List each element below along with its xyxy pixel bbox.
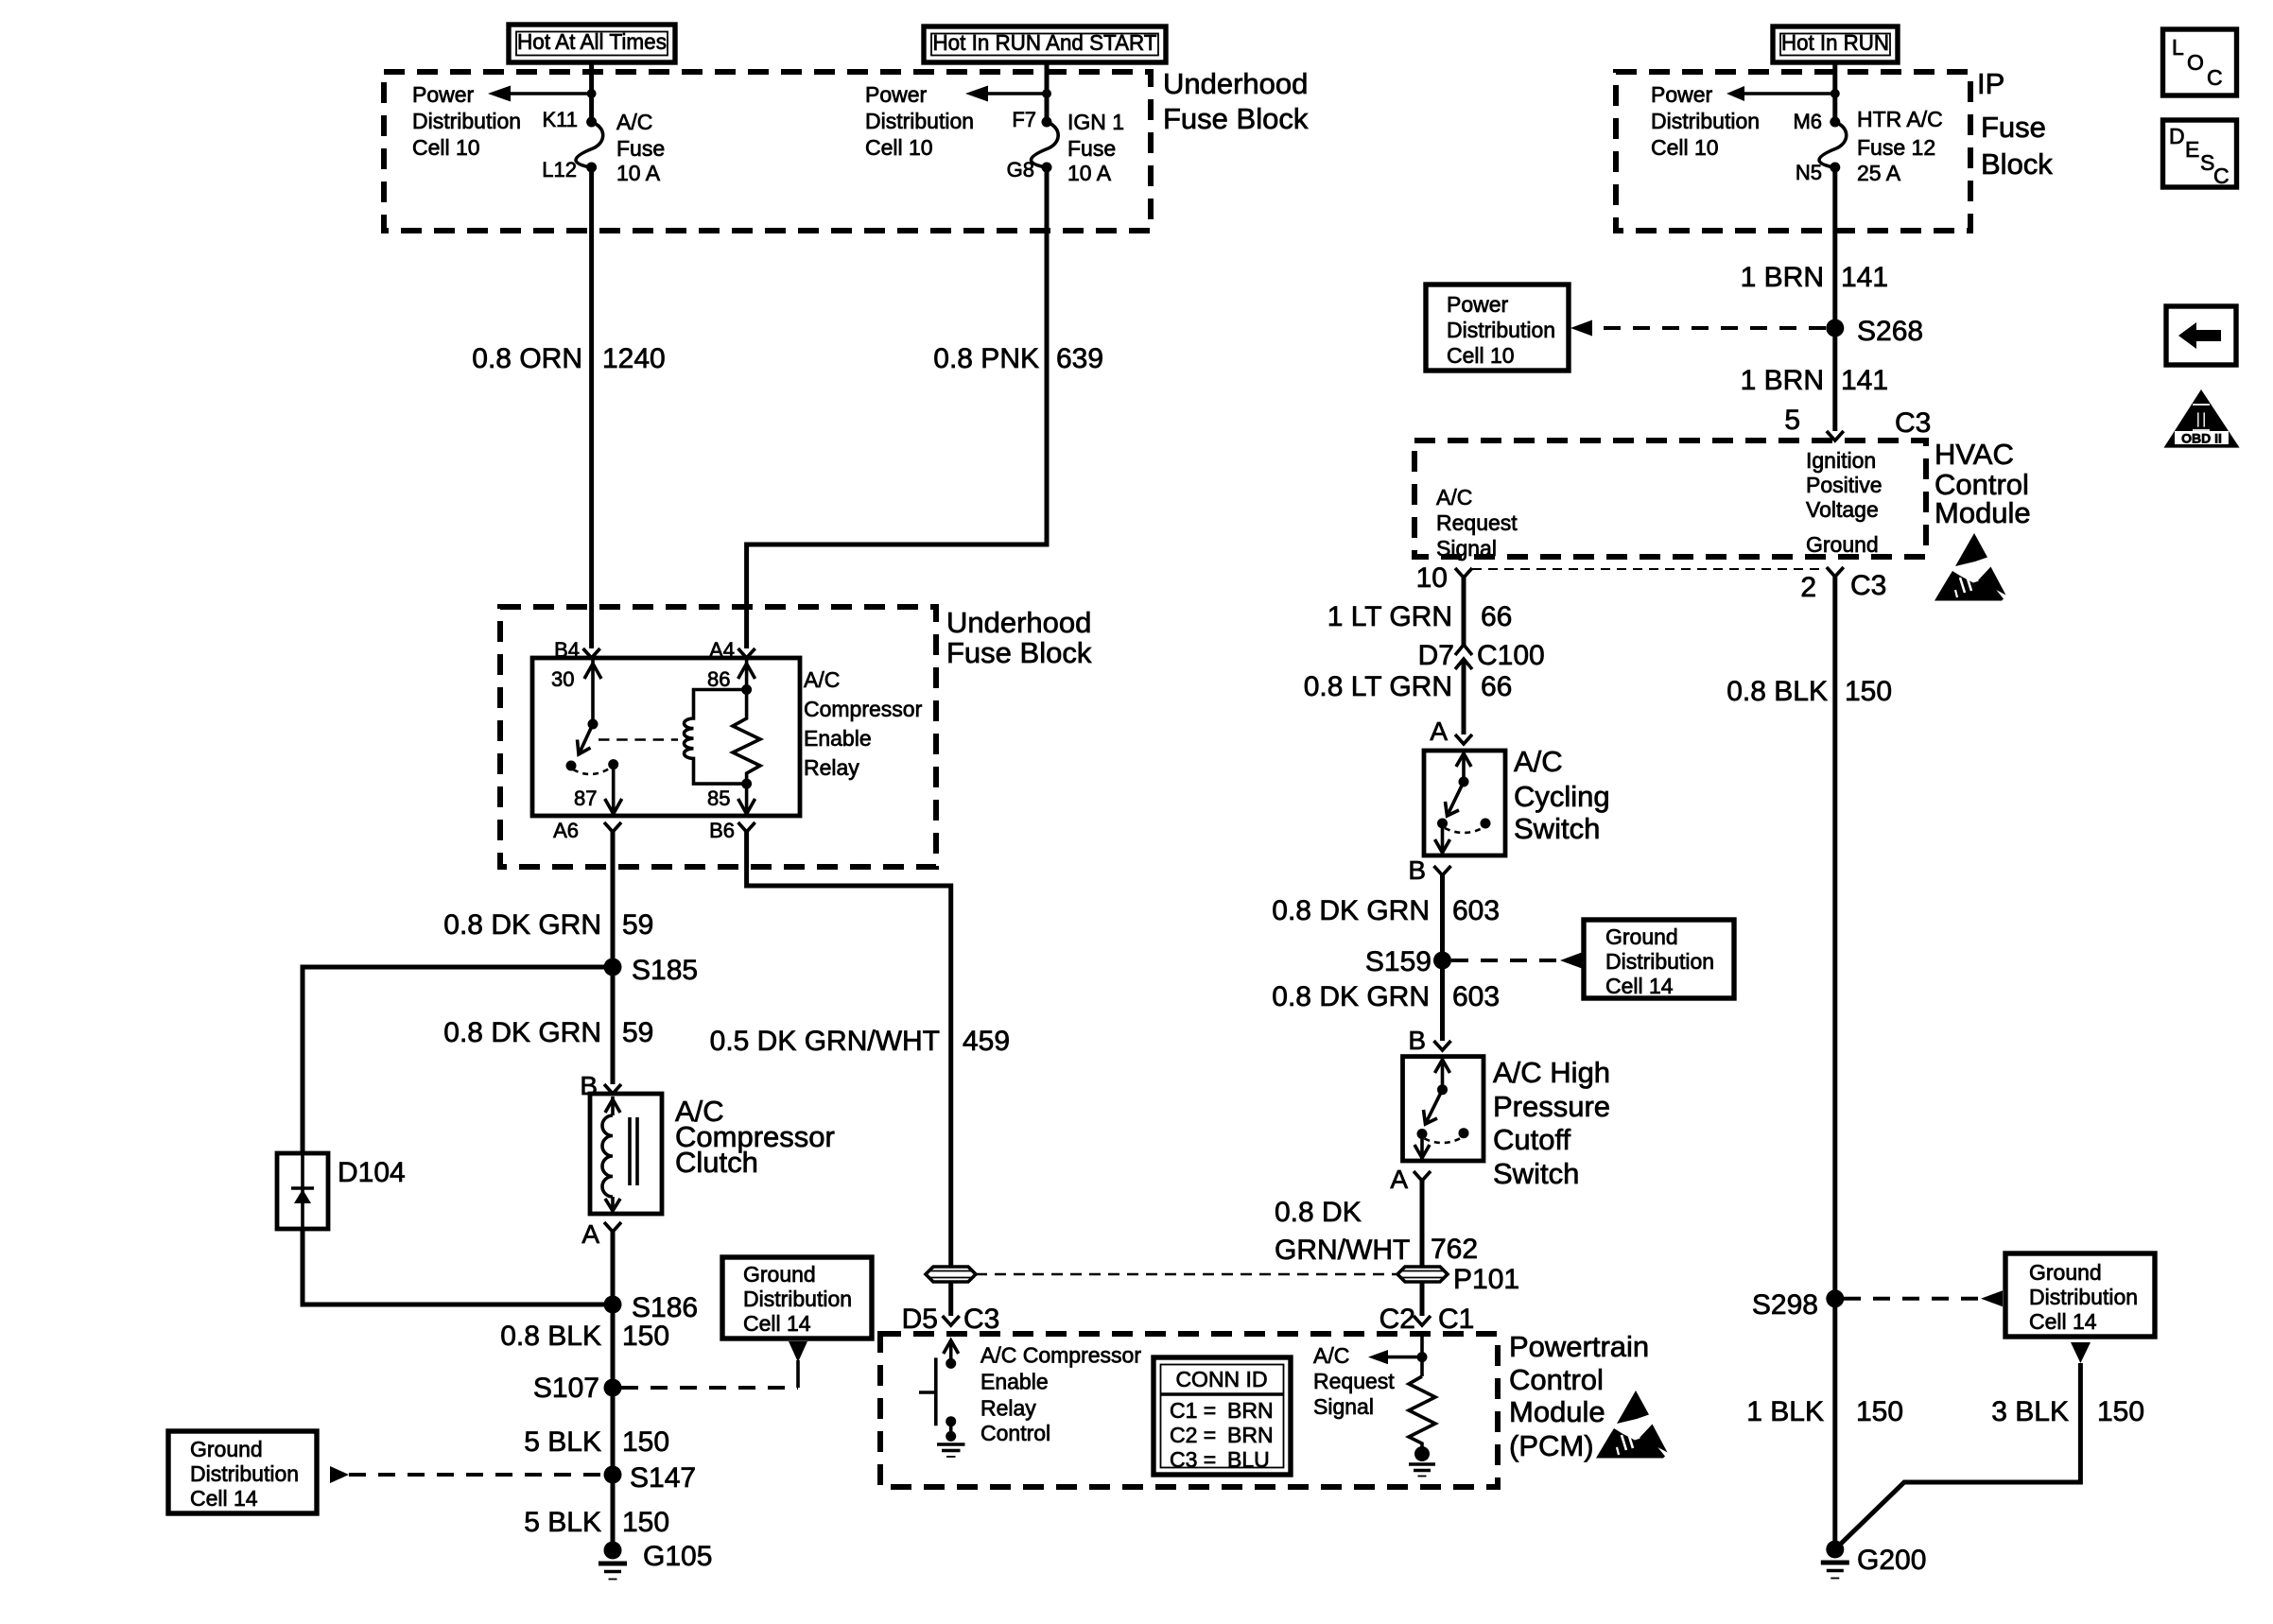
svg-text:A: A bbox=[1430, 717, 1448, 746]
svg-text:Hot At All Times: Hot At All Times bbox=[517, 29, 667, 54]
clutch plates (parallel lines) bbox=[630, 1117, 637, 1185]
svg-text:Distribution: Distribution bbox=[865, 109, 974, 133]
wire 0.8 ORN 1240 from A/C fuse to relay B4 bbox=[589, 167, 594, 648]
wire 0.8 DK GRN 59 relay A6 to S185 bbox=[611, 832, 616, 967]
svg-text:Switch: Switch bbox=[1493, 1157, 1579, 1190]
box Ground Distribution Cell 14 (right) bbox=[2005, 1253, 2155, 1337]
svg-text:Signal: Signal bbox=[1436, 536, 1497, 561]
svg-text:Ground: Ground bbox=[1605, 924, 1678, 949]
svg-text:Cell 10: Cell 10 bbox=[1651, 135, 1719, 160]
svg-text:Cell 14: Cell 14 bbox=[1605, 974, 1674, 998]
arrow to Ground Distribution (left triangle, S159) bbox=[1560, 953, 1582, 969]
svg-text:Request: Request bbox=[1436, 510, 1518, 535]
label A/C Compressor Enable Relay bbox=[804, 667, 923, 780]
node S107 bbox=[533, 1373, 622, 1404]
svg-text:603: 603 bbox=[1452, 981, 1500, 1012]
svg-text:S159: S159 bbox=[1365, 946, 1431, 977]
dashed reference wire S107 to Ground Distribution bbox=[621, 1360, 798, 1388]
svg-text:G200: G200 bbox=[1857, 1545, 1926, 1576]
label 0.8 DK GRN 59 (upper) bbox=[443, 909, 653, 941]
svg-text:459: 459 bbox=[963, 1026, 1010, 1057]
wire P101 to PCM C1 pin bbox=[1420, 1282, 1425, 1316]
svg-text:A/C: A/C bbox=[1313, 1343, 1349, 1368]
svg-text:C2 =: C2 = bbox=[1170, 1423, 1216, 1447]
svg-text:0.8 DK GRN: 0.8 DK GRN bbox=[443, 1017, 601, 1048]
svg-text:A/C: A/C bbox=[616, 110, 652, 134]
legend OBD II triangle bbox=[2164, 389, 2240, 448]
svg-text:BLU: BLU bbox=[1227, 1447, 1270, 1472]
wire from Hot In RUN to HTR A/C fuse bbox=[1832, 62, 1837, 122]
svg-text:D: D bbox=[2169, 124, 2185, 148]
label A/C Cycling Switch bbox=[1514, 745, 1610, 845]
svg-text:Cell 14: Cell 14 bbox=[2029, 1309, 2097, 1334]
wire clutch A to S186 bbox=[611, 1232, 616, 1304]
connector fork pin 2 C3 (HVAC) bbox=[1800, 567, 1886, 603]
node S159 bbox=[1365, 946, 1451, 977]
svg-text:30: 30 bbox=[551, 667, 574, 691]
svg-text:0.8 LT GRN: 0.8 LT GRN bbox=[1304, 671, 1452, 702]
svg-text:87: 87 bbox=[574, 786, 597, 810]
box Ground Distribution Cell 14 (left) bbox=[168, 1431, 317, 1513]
svg-text:Distribution: Distribution bbox=[1447, 318, 1555, 342]
svg-text:639: 639 bbox=[1056, 343, 1103, 374]
svg-text:150: 150 bbox=[622, 1321, 669, 1352]
connector fork A (cycling switch) bbox=[1430, 717, 1472, 746]
connector fork D5/C3 bbox=[902, 1304, 1000, 1335]
svg-text:HVAC: HVAC bbox=[1935, 438, 2014, 471]
svg-text:S298: S298 bbox=[1752, 1289, 1818, 1321]
wire 0.8 DK GRN 59 S185 to clutch B bbox=[611, 967, 616, 1084]
relay resistor bbox=[733, 690, 760, 785]
dashed reference wire S159 to Ground Distribution bbox=[1451, 959, 1560, 962]
connector fork A4 bbox=[709, 638, 755, 662]
svg-text:Enable: Enable bbox=[980, 1370, 1049, 1394]
PCM pull-up resistor bbox=[1409, 1376, 1435, 1448]
svg-text:Request: Request bbox=[1313, 1369, 1395, 1393]
connector fork B (clutch) bbox=[580, 1071, 621, 1100]
svg-text:Distribution: Distribution bbox=[190, 1461, 299, 1486]
pin 30 with up arrow bbox=[551, 659, 601, 724]
dashed reference wire to S147 bbox=[349, 1473, 603, 1477]
wire D104 branch (S185 left, down, right to S186) bbox=[303, 967, 613, 1153]
relay coil bbox=[685, 690, 747, 785]
svg-text:S107: S107 bbox=[533, 1373, 599, 1404]
svg-text:10 A: 10 A bbox=[1067, 161, 1112, 185]
svg-text:Clutch: Clutch bbox=[675, 1146, 758, 1179]
svg-text:Pressure: Pressure bbox=[1493, 1090, 1610, 1123]
svg-text:C3 =: C3 = bbox=[1170, 1447, 1216, 1472]
svg-text:Ground: Ground bbox=[2029, 1260, 2102, 1285]
svg-text:A6: A6 bbox=[553, 819, 579, 842]
wire 1 BRN 141 fuse N5 to HVAC pin 5 bbox=[1832, 167, 1837, 431]
label Power Distribution Cell 10 (box 3) bbox=[1651, 82, 1760, 160]
svg-text:D5: D5 bbox=[902, 1304, 938, 1335]
svg-text:5 BLK: 5 BLK bbox=[524, 1426, 601, 1458]
dashed box Underhood Fuse Block (top) bbox=[384, 72, 1151, 231]
label Underhood Fuse Block (relay) bbox=[946, 606, 1092, 669]
svg-text:Cell 10: Cell 10 bbox=[412, 135, 480, 160]
label 5 BLK 150 (upper) bbox=[524, 1426, 669, 1458]
PCM resistor ground dot bbox=[1414, 1446, 1430, 1461]
svg-text:C3: C3 bbox=[1895, 407, 1931, 439]
svg-text:B: B bbox=[1408, 855, 1426, 885]
connector fork B (HP cutoff switch) bbox=[1408, 1026, 1450, 1055]
svg-text:1 LT GRN: 1 LT GRN bbox=[1327, 601, 1452, 632]
svg-text:A: A bbox=[581, 1219, 599, 1249]
svg-text:IP: IP bbox=[1977, 67, 2004, 100]
node junction on IGN1 fuse feed bbox=[1042, 89, 1051, 98]
wire branch to Power Distribution (left arrow, box 2) bbox=[988, 92, 1047, 95]
svg-text:Enable: Enable bbox=[804, 726, 872, 751]
svg-text:Module: Module bbox=[1509, 1395, 1605, 1428]
label 0.8 BLK 150 (right) bbox=[1726, 676, 1892, 707]
svg-text:Ground: Ground bbox=[1806, 532, 1879, 557]
arrow to Ground Distribution (down triangle) bbox=[789, 1341, 807, 1362]
label 5 BLK 150 (lower) bbox=[524, 1507, 669, 1538]
dashed box IP Fuse Block bbox=[1616, 72, 1970, 231]
node S147 bbox=[604, 1462, 697, 1494]
svg-text:25 A: 25 A bbox=[1857, 161, 1901, 185]
svg-text:Underhood: Underhood bbox=[946, 606, 1091, 639]
arrow from Ground Distribution box (right triangle) bbox=[330, 1466, 349, 1483]
legend box LOC bbox=[2163, 29, 2237, 95]
svg-text:Power: Power bbox=[412, 82, 475, 107]
label A/C Fuse 10 A bbox=[616, 110, 665, 185]
svg-text:Fuse: Fuse bbox=[616, 136, 665, 161]
svg-text:Relay: Relay bbox=[804, 755, 859, 780]
svg-text:L12: L12 bbox=[542, 158, 577, 181]
power label box "Hot In RUN And START" bbox=[924, 26, 1166, 62]
label 1 BRN 141 (lower) bbox=[1741, 365, 1888, 396]
label A/C Compressor Clutch bbox=[675, 1095, 835, 1179]
dashed box HVAC Control Module bbox=[1414, 441, 1926, 557]
svg-text:B: B bbox=[1408, 1026, 1426, 1055]
relay contact (left) bbox=[566, 761, 577, 771]
svg-text:0.8 DK GRN: 0.8 DK GRN bbox=[443, 909, 601, 941]
connector fork A (clutch) bbox=[581, 1219, 621, 1249]
ESD symbol (PCM) bbox=[1596, 1391, 1668, 1459]
svg-text:Fuse 12: Fuse 12 bbox=[1857, 135, 1935, 160]
svg-text:C1 =: C1 = bbox=[1170, 1398, 1216, 1423]
svg-text:Control: Control bbox=[980, 1421, 1050, 1445]
label HTR A/C Fuse 12 25 A bbox=[1857, 107, 1943, 185]
svg-text:O: O bbox=[2187, 50, 2204, 75]
svg-text:Positive: Positive bbox=[1806, 473, 1883, 497]
svg-text:Cell 14: Cell 14 bbox=[190, 1486, 258, 1511]
connector C100 D7 (double chevron) bbox=[1418, 640, 1545, 671]
label A/C Request Signal (HVAC) bbox=[1436, 485, 1518, 561]
svg-text:Distribution: Distribution bbox=[1605, 949, 1714, 974]
svg-text:85: 85 bbox=[707, 786, 730, 810]
label 0.8 DK GRN 603 (upper) bbox=[1272, 895, 1500, 926]
svg-text:A/C: A/C bbox=[804, 667, 840, 692]
dashed reference wire S268 to Power Distribution bbox=[1592, 326, 1826, 330]
relay contact travel arc (dashed) bbox=[573, 768, 611, 774]
svg-text:C3: C3 bbox=[1850, 570, 1886, 601]
svg-text:66: 66 bbox=[1481, 671, 1512, 702]
legend box back arrow bbox=[2166, 306, 2236, 365]
fuse F2 IGN 1 Fuse 10A bbox=[1032, 117, 1059, 173]
node S268 bbox=[1826, 316, 1923, 347]
diode D104 symbol bbox=[291, 1153, 314, 1229]
inline connector P101 bbox=[1397, 1264, 1519, 1295]
wire 0.8 BLK 150 HVAC pin2 to G200 bbox=[1832, 577, 1837, 1550]
label 1 BLK 150 bbox=[1746, 1396, 1903, 1427]
relay mechanical link (dashed) bbox=[599, 738, 678, 741]
wire lens to PCM D5 pin bbox=[948, 1282, 953, 1316]
svg-text:Cell 10: Cell 10 bbox=[865, 135, 933, 160]
node coil/resistor top junction bbox=[741, 684, 752, 695]
wire branch to Power Distribution (left arrow, box 3) bbox=[1744, 92, 1835, 95]
svg-text:S268: S268 bbox=[1857, 316, 1923, 347]
svg-text:0.8 PNK: 0.8 PNK bbox=[933, 343, 1039, 374]
svg-text:A/C: A/C bbox=[1436, 485, 1472, 510]
svg-text:0.8 BLK: 0.8 BLK bbox=[500, 1321, 601, 1352]
svg-text:C3: C3 bbox=[963, 1304, 999, 1335]
wire 0.8 PNK 639 from IGN1 fuse to relay A4 bbox=[747, 167, 1047, 648]
svg-text:150: 150 bbox=[2097, 1396, 2144, 1427]
svg-text:86: 86 bbox=[707, 667, 730, 691]
svg-text:A/C High: A/C High bbox=[1493, 1056, 1610, 1089]
ground symbol (PCM driver) bbox=[937, 1444, 965, 1457]
svg-text:D104: D104 bbox=[338, 1157, 406, 1188]
power label box "Hot In RUN" bbox=[1773, 26, 1898, 62]
label A/C Request Signal (PCM) bbox=[1313, 1343, 1395, 1419]
svg-text:Block: Block bbox=[1981, 147, 2053, 181]
svg-text:Power: Power bbox=[865, 82, 928, 107]
HP cutoff switch internals bbox=[1414, 1057, 1469, 1159]
wire 3 BLK 150 to G200 bbox=[1835, 1363, 2081, 1549]
dashed harness wire to P101 bbox=[976, 1273, 1397, 1275]
svg-text:10: 10 bbox=[1416, 562, 1448, 594]
ground G105 bbox=[599, 1541, 712, 1580]
svg-text:Ignition: Ignition bbox=[1806, 448, 1876, 473]
relay U1 A/C Compressor Enable Relay box bbox=[532, 658, 800, 816]
label Power Distribution Cell 10 (box 1) bbox=[412, 82, 521, 160]
dashed box Powertrain Control Module (PCM) bbox=[880, 1334, 1498, 1487]
svg-text:1 BRN: 1 BRN bbox=[1741, 365, 1824, 396]
svg-text:Fuse: Fuse bbox=[1067, 136, 1116, 161]
A/C Compressor Clutch box bbox=[590, 1094, 662, 1214]
svg-text:0.8 DK GRN: 0.8 DK GRN bbox=[1272, 981, 1430, 1012]
svg-text:OBD II: OBD II bbox=[2181, 431, 2222, 446]
power label box "Hot At All Times" bbox=[509, 25, 675, 62]
pin 87 with down arrow bbox=[574, 765, 622, 814]
svg-text:GRN/WHT: GRN/WHT bbox=[1275, 1235, 1410, 1266]
connector fork pin 10 (HVAC) bbox=[1416, 562, 1472, 594]
svg-text:A/C: A/C bbox=[1514, 745, 1563, 778]
cycling switch internals bbox=[1435, 751, 1491, 854]
node coil/resistor bottom junction bbox=[741, 779, 752, 789]
svg-text:Hot In RUN And START: Hot In RUN And START bbox=[933, 30, 1157, 55]
svg-text:Signal: Signal bbox=[1313, 1394, 1374, 1419]
wire 0.8 DK GRN/WHT 762 to P101 bbox=[1420, 1181, 1425, 1267]
label 1 BRN 141 (upper) bbox=[1741, 262, 1888, 293]
label 0.8 LT GRN 66 bbox=[1304, 671, 1513, 702]
svg-text:0.8 BLK: 0.8 BLK bbox=[1726, 676, 1828, 707]
svg-text:5: 5 bbox=[1784, 405, 1800, 436]
node S186 bbox=[604, 1292, 699, 1323]
svg-text:141: 141 bbox=[1841, 365, 1888, 396]
fuse F1 A/C Fuse 10A bbox=[576, 117, 603, 173]
label 0.8 DK GRN 59 (lower) bbox=[443, 1017, 653, 1048]
wire 1 LT GRN 66 pin10 to C100 bbox=[1462, 578, 1466, 646]
svg-text:Fuse: Fuse bbox=[1981, 111, 2046, 144]
svg-text:P101: P101 bbox=[1453, 1264, 1519, 1295]
svg-text:A: A bbox=[1390, 1165, 1408, 1194]
ESD symbol (HVAC) bbox=[1935, 533, 2006, 601]
svg-text:150: 150 bbox=[1856, 1396, 1903, 1427]
ground G200 bbox=[1821, 1541, 1927, 1579]
inline connector (harness side, D5 leg) bbox=[926, 1267, 976, 1282]
svg-text:K11: K11 bbox=[542, 108, 578, 131]
svg-text:II: II bbox=[2195, 407, 2208, 432]
svg-text:Control: Control bbox=[1509, 1363, 1604, 1396]
label IGN 1 Fuse 10 A bbox=[1067, 110, 1124, 185]
svg-text:Module: Module bbox=[1935, 496, 2031, 529]
svg-text:Voltage: Voltage bbox=[1806, 497, 1879, 522]
svg-text:BRN: BRN bbox=[1227, 1423, 1274, 1447]
svg-text:Power: Power bbox=[1447, 292, 1509, 317]
svg-text:Power: Power bbox=[1651, 82, 1713, 107]
svg-text:L: L bbox=[2172, 35, 2184, 60]
label 0.5 DK GRN/WHT 459 bbox=[710, 1026, 1010, 1057]
label A/C Compressor Enable Relay Control bbox=[980, 1343, 1141, 1446]
svg-text:59: 59 bbox=[622, 909, 653, 941]
svg-text:C1: C1 bbox=[1438, 1304, 1474, 1335]
connector fork pin 5 C3 (HVAC) bbox=[1784, 405, 1931, 441]
ground symbol (PCM resistor) bbox=[1409, 1464, 1435, 1477]
svg-text:1240: 1240 bbox=[602, 343, 666, 374]
svg-text:59: 59 bbox=[622, 1017, 653, 1048]
svg-text:141: 141 bbox=[1841, 262, 1888, 293]
svg-text:66: 66 bbox=[1481, 601, 1512, 632]
diode D104 box bbox=[277, 1153, 328, 1229]
dashed box Underhood Fuse Block (relay) bbox=[500, 607, 936, 867]
PCM A/C request sense branch arrow bbox=[1368, 1350, 1428, 1364]
svg-text:BRN: BRN bbox=[1227, 1398, 1274, 1423]
svg-text:Distribution: Distribution bbox=[412, 109, 521, 133]
wire 0.8 BLK 150 S186 to G105 bbox=[611, 1304, 616, 1550]
svg-text:Cell 10: Cell 10 bbox=[1447, 343, 1515, 368]
svg-text:D7: D7 bbox=[1418, 640, 1454, 671]
svg-text:0.8 ORN: 0.8 ORN bbox=[472, 343, 582, 374]
node S185 bbox=[604, 955, 699, 986]
svg-text:Compressor: Compressor bbox=[804, 697, 923, 721]
svg-text:3 BLK: 3 BLK bbox=[1991, 1396, 2069, 1427]
svg-text:Powertrain: Powertrain bbox=[1509, 1330, 1649, 1363]
svg-text:C2: C2 bbox=[1379, 1304, 1415, 1335]
svg-text:(PCM): (PCM) bbox=[1509, 1429, 1594, 1462]
svg-text:A/C Compressor: A/C Compressor bbox=[980, 1343, 1141, 1368]
box Ground Distribution Cell 14 (S159) bbox=[1584, 920, 1734, 998]
svg-text:E: E bbox=[2185, 137, 2199, 162]
thin dashed connector strip pin10 to pin2 bbox=[1472, 568, 1825, 570]
svg-text:0.5 DK GRN/WHT: 0.5 DK GRN/WHT bbox=[710, 1026, 940, 1057]
PCM relay-control driver arrow bbox=[944, 1340, 959, 1369]
pin 86 wire with up arrow bbox=[707, 659, 755, 691]
arrow from Ground Distribution right (down triangle) bbox=[2071, 1342, 2091, 1363]
svg-text:2: 2 bbox=[1800, 572, 1816, 603]
wire 0.5 DK GRN/WHT 459 from relay B6 to PCM D5 bbox=[747, 832, 951, 1267]
label 0.8 DK GRN/WHT 762 bbox=[1275, 1197, 1478, 1266]
svg-text:150: 150 bbox=[1845, 676, 1892, 707]
svg-text:762: 762 bbox=[1431, 1234, 1478, 1265]
label 0.8 BLK 150 bbox=[500, 1321, 669, 1352]
svg-text:Distribution: Distribution bbox=[743, 1287, 852, 1311]
label Ignition Positive Voltage / Ground (HVAC) bbox=[1806, 448, 1883, 557]
svg-text:0.8 DK GRN: 0.8 DK GRN bbox=[1272, 895, 1430, 926]
PCM driver lower contact to ground bbox=[946, 1416, 956, 1442]
svg-text:Switch: Switch bbox=[1514, 812, 1600, 845]
A/C High Pressure Cutoff Switch box bbox=[1403, 1057, 1484, 1161]
svg-text:CONN ID: CONN ID bbox=[1175, 1367, 1267, 1391]
fuse F3 HTR A/C Fuse 12 25A bbox=[1819, 117, 1847, 173]
svg-text:S185: S185 bbox=[632, 955, 698, 986]
wire from Hot In RUN And START to IGN1 fuse bbox=[1045, 62, 1050, 122]
svg-text:M6: M6 bbox=[1793, 110, 1822, 133]
svg-text:0.8 DK: 0.8 DK bbox=[1275, 1197, 1362, 1228]
svg-text:HTR A/C: HTR A/C bbox=[1857, 107, 1943, 131]
svg-text:G8: G8 bbox=[1007, 158, 1034, 181]
wire 0.8 LT GRN 66 C100 to cycling switch A bbox=[1462, 659, 1466, 734]
svg-text:C: C bbox=[2213, 164, 2230, 188]
node S298 bbox=[1752, 1289, 1844, 1321]
wire from Hot At All Times to A/C Fuse bbox=[589, 60, 594, 122]
wire D104 bottom to S186 bbox=[303, 1229, 613, 1304]
dashed reference wire S298 to Ground Distribution bbox=[1844, 1297, 1981, 1301]
label Powertrain Control Module (PCM) bbox=[1509, 1330, 1649, 1462]
legend box DESC bbox=[2163, 120, 2237, 188]
svg-text:603: 603 bbox=[1452, 895, 1500, 926]
arrow to Power Distribution (left triangle) bbox=[1570, 320, 1592, 337]
svg-text:C100: C100 bbox=[1477, 640, 1545, 671]
box Power Distribution Cell 10 (right) bbox=[1426, 285, 1569, 371]
svg-text:N5: N5 bbox=[1796, 161, 1822, 184]
svg-text:Cutoff: Cutoff bbox=[1493, 1123, 1571, 1156]
label 0.8 PNK 639 bbox=[933, 343, 1103, 374]
svg-text:1 BLK: 1 BLK bbox=[1746, 1396, 1824, 1427]
label IP Fuse Block bbox=[1977, 67, 2053, 181]
label HVAC Control Module bbox=[1935, 438, 2031, 529]
svg-text:Distribution: Distribution bbox=[1651, 109, 1760, 133]
svg-text:Relay: Relay bbox=[980, 1396, 1036, 1421]
svg-text:Distribution: Distribution bbox=[2029, 1285, 2138, 1309]
svg-text:Fuse Block: Fuse Block bbox=[1163, 102, 1309, 135]
label 1 LT GRN 66 bbox=[1327, 601, 1513, 632]
svg-text:1 BRN: 1 BRN bbox=[1741, 262, 1824, 293]
svg-text:10 A: 10 A bbox=[616, 161, 661, 185]
connector fork A (HP cutoff switch) bbox=[1390, 1165, 1431, 1194]
node junction on HTR A/C fuse feed bbox=[1831, 89, 1840, 98]
svg-text:Ground: Ground bbox=[743, 1262, 816, 1287]
svg-text:B6: B6 bbox=[709, 819, 735, 842]
svg-text:5 BLK: 5 BLK bbox=[524, 1507, 601, 1538]
connector fork C2/C1 bbox=[1379, 1304, 1475, 1335]
wire C1 pin into PCM bbox=[1420, 1334, 1424, 1376]
label 0.8 DK GRN 603 (lower) bbox=[1272, 981, 1500, 1012]
svg-text:Cell 14: Cell 14 bbox=[743, 1311, 811, 1336]
svg-text:G105: G105 bbox=[643, 1541, 712, 1572]
label Underhood Fuse Block bbox=[1163, 67, 1309, 135]
box Ground Distribution Cell 14 (middle) bbox=[722, 1257, 872, 1339]
connector fork B6 bbox=[709, 819, 755, 842]
svg-text:C: C bbox=[2207, 65, 2223, 90]
connector fork B4 bbox=[554, 638, 600, 662]
svg-text:Fuse Block: Fuse Block bbox=[946, 636, 1092, 669]
connector fork A6 bbox=[553, 819, 621, 842]
wire 0.8 DK GRN 603 cycling B to S159 bbox=[1440, 875, 1445, 1041]
